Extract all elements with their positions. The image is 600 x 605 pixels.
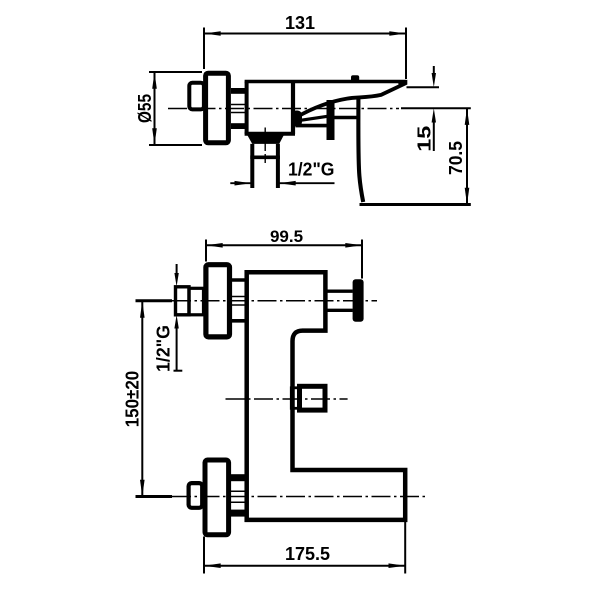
svg-text:15: 15 (415, 126, 435, 152)
svg-text:175.5: 175.5 (285, 544, 330, 564)
svg-text:99.5: 99.5 (270, 227, 303, 246)
svg-text:150±20: 150±20 (123, 371, 143, 428)
svg-text:131: 131 (285, 13, 315, 33)
svg-text:Ø55: Ø55 (135, 94, 155, 123)
svg-text:1/2"G: 1/2"G (154, 325, 174, 372)
svg-text:70.5: 70.5 (446, 141, 466, 175)
svg-text:1/2"G: 1/2"G (288, 160, 335, 180)
